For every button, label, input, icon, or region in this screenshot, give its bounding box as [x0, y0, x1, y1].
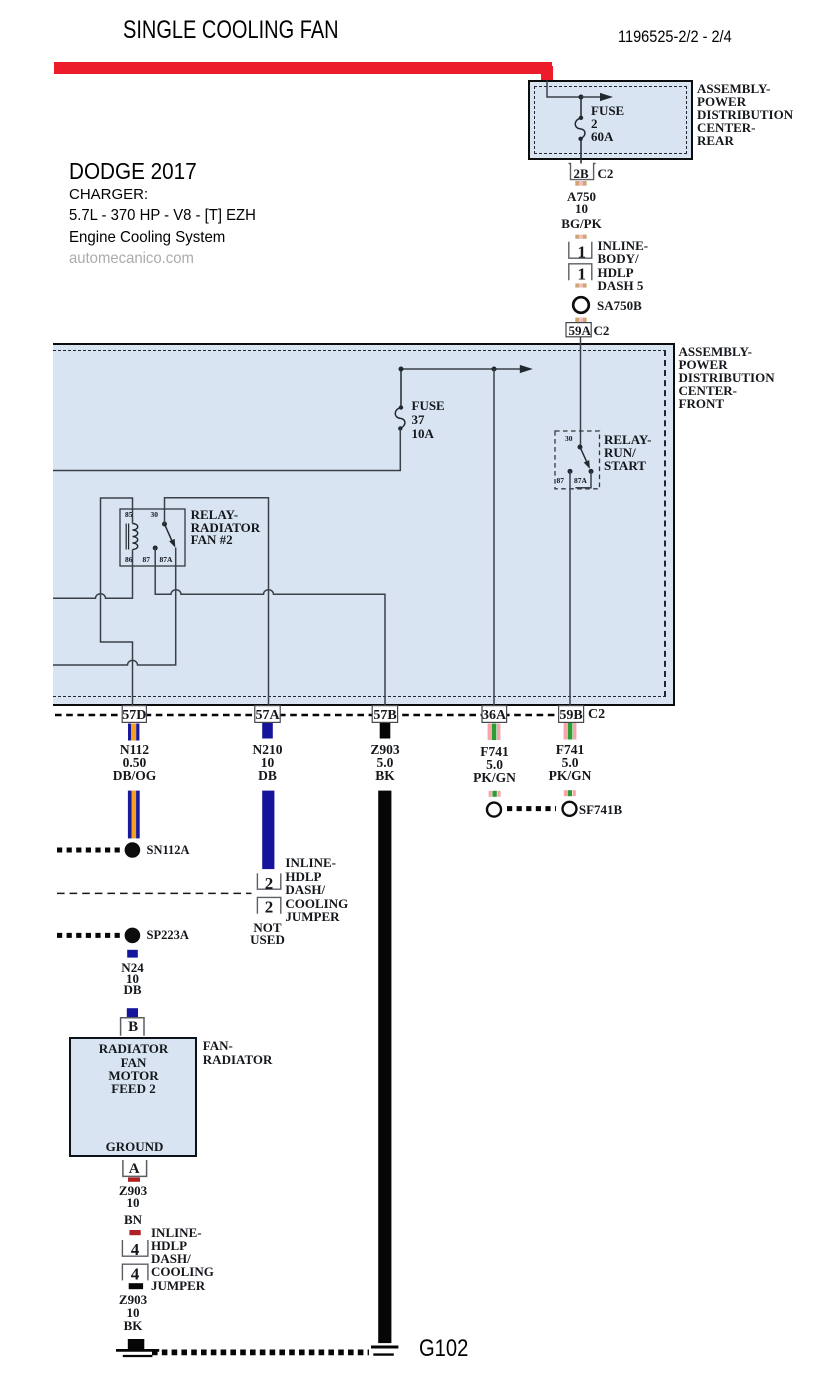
wire bus arrow (front PDC) [401, 368, 522, 370]
wire from red bus to junction (rear PDC) [547, 81, 581, 98]
pin 87A label run/start [574, 477, 587, 485]
inline connector 4 labels [151, 1226, 214, 1291]
sheet number 1196525-2/2 - 2/4 [618, 27, 732, 47]
connector 59A box [566, 323, 591, 337]
connector 57B label [373, 709, 396, 723]
wire stub F741 PK/GN (59B) [564, 723, 577, 740]
red power bus [54, 62, 552, 74]
splice dotted link SF741B [507, 806, 556, 811]
box radiator fan motor [69, 1037, 197, 1157]
node relay fan2 pin 30 [162, 522, 167, 527]
wire Z903 BK label [119, 1293, 147, 1306]
node junction at fuse 37 [399, 367, 404, 372]
connector C2 label (top) [598, 167, 614, 180]
connector A bracket [123, 1160, 147, 1176]
connector 59B label [559, 709, 582, 723]
wire A750 label [567, 190, 596, 203]
connector 57A box [255, 706, 280, 723]
wire pin 30 fan2 up and over to 57A [165, 498, 269, 714]
ground dotted link [152, 1350, 369, 1356]
wire stub DB above connector B [127, 1008, 138, 1018]
relay run/start switch blade to 87A [580, 447, 588, 464]
label relay radiator fan #2 [191, 509, 261, 548]
note NOT USED [250, 922, 285, 947]
connector B label [128, 1020, 138, 1035]
wire stub N210 DB [262, 723, 273, 739]
wire pin 87 fan2 to 57B with hops [155, 548, 385, 714]
label ground (in motor box) [106, 1140, 164, 1153]
pin 87 label fan relay [143, 556, 151, 564]
node junction rear PDC [579, 95, 584, 100]
splice SF741B label [579, 803, 622, 816]
inline connector 2 bracket (lower) [257, 897, 280, 913]
wire stub BG/PK (below splice) [575, 318, 586, 323]
wire arrow feed (rear PDC) [581, 96, 602, 98]
wire fuse 37 output to left box edge [53, 429, 400, 471]
inline connector 2 labels [285, 856, 348, 923]
title SINGLE COOLING FAN [123, 16, 339, 45]
connector A label [129, 1162, 140, 1177]
inline connector 2 bracket (upper) [257, 873, 280, 889]
wire stub F741 PK/GN (36A) [488, 724, 501, 741]
splice SN112A label [147, 844, 190, 857]
connector 57D label [122, 709, 146, 723]
inline connector 1 bracket (lower) [569, 264, 592, 280]
splice dotted lead (SN112A) [57, 848, 121, 853]
connector 36A box [482, 706, 507, 723]
inline connector 1 labels [598, 239, 649, 292]
svg-text:2: 2 [265, 898, 274, 917]
pin 87A label fan relay [160, 556, 173, 564]
splice eyelet SF741B [563, 802, 577, 816]
node relay run/start pin 30 [578, 445, 583, 450]
wire stub to ground (left) [128, 1339, 145, 1349]
splice SA750B label [597, 299, 642, 312]
wire stub F741 short (36A) [489, 791, 501, 797]
connector row dashed line [55, 714, 559, 716]
wire F741 label (36A) [473, 746, 516, 785]
inline connector 4 bracket (lower) [122, 1264, 147, 1280]
wire N210 DB run [262, 791, 274, 870]
wire N112 DB/OG run [128, 791, 140, 839]
wire 59A into front PDC down to relay pin 30 [580, 337, 582, 447]
connector C2 label (bottom) [588, 708, 605, 722]
box assembly power distribution center rear [528, 80, 693, 160]
wire stub Z903 BK [380, 723, 391, 739]
inline connector 1 bracket (upper) [569, 242, 592, 258]
wire stub N112 DB/OG [128, 724, 139, 741]
ground symbol (left) [116, 1349, 159, 1352]
wire stub BG/PK (above splice) [575, 283, 586, 287]
dashed inner border rear PDC [534, 86, 687, 154]
wire pin 85: coil top up, over and down to 57D [101, 498, 133, 714]
splice SP223A label [147, 929, 189, 942]
ground symbol G102 (right) [371, 1346, 398, 1349]
splice dotted lead (SP223A) [57, 933, 121, 938]
connector C2 label (59A) [594, 324, 610, 337]
splice eyelet (36A side) [487, 803, 501, 817]
wire 36A branch down to connector [493, 369, 495, 714]
splice SP223A [125, 928, 141, 944]
pin 87 label run/start [557, 477, 565, 485]
connector B bracket [121, 1018, 144, 1036]
svg-text:1: 1 [578, 265, 587, 284]
wire stub N24 DB [127, 950, 138, 958]
inline connector 4 bracket (upper) [122, 1240, 147, 1256]
wire 59B: run/start pin 87 down to connector [569, 471, 571, 714]
red power bus drop [541, 66, 553, 81]
wire N210 label [253, 744, 283, 783]
relay coil core lines [126, 524, 128, 550]
connector 57B box [372, 706, 397, 723]
label fan-radiator [203, 1039, 273, 1066]
ground G102 label [419, 1335, 468, 1363]
node junction at 36A branch [492, 367, 497, 372]
wire stub Z903 BK (below inline 4) [129, 1283, 143, 1289]
svg-text:4: 4 [131, 1264, 140, 1283]
pin 86 label fan relay [125, 556, 133, 564]
relay coil winding [133, 524, 138, 550]
wire N112 label [113, 744, 157, 783]
fuse F37 value label [412, 399, 445, 441]
harness dashed separator [57, 892, 252, 894]
connector 36A label [482, 709, 506, 723]
splice SA750B [573, 297, 589, 313]
connector 2B bracket [569, 164, 596, 180]
wire N24 label [121, 962, 143, 995]
wire Z903 BN label [119, 1184, 147, 1197]
node relay run/start pin 87A [589, 469, 594, 474]
svg-text:1: 1 [578, 242, 587, 261]
wire stub F741 short (59B) [564, 790, 576, 796]
wire Z903 BK run [378, 791, 391, 1344]
fuse F37 10A [395, 369, 405, 428]
relay radiator fan #2 box [120, 509, 185, 566]
label relay run/start [604, 433, 651, 473]
wire stub Z903 BN (above inline 4) [129, 1230, 140, 1235]
fuse F2 value label [591, 104, 624, 143]
label rear PDC [697, 82, 793, 147]
svg-text:2: 2 [265, 874, 274, 893]
node relay fan2 pin 87 [153, 546, 158, 551]
connector 57D box [122, 706, 146, 723]
connector 57A label [255, 709, 279, 723]
connector 59B box [559, 706, 584, 723]
info block DODGE 2017 [69, 158, 197, 185]
node relay run/start pin 87 [568, 469, 573, 474]
label radiator fan motor feed 2 [99, 1042, 169, 1095]
connector 2B label [574, 167, 589, 180]
wire pin 87A fan2 down and left to box edge with hop [53, 548, 176, 665]
connector 59A label [569, 324, 591, 337]
pin 30 label fan relay [151, 511, 159, 519]
wire F741 label (59B) [549, 744, 592, 783]
wire stub Z903 BN (below A) [128, 1177, 140, 1181]
relay fan2 switch blade to 87A [165, 524, 173, 542]
pin 85 label fan relay [125, 511, 133, 519]
splice SN112A [125, 842, 141, 858]
box assembly power distribution center front (fill) [53, 343, 675, 706]
dashed inner border front PDC [53, 350, 666, 698]
fuse F2 60A [575, 97, 585, 164]
relay run/start dashed box [555, 431, 600, 489]
pin 30 label run/start [565, 435, 573, 443]
wire stub BG/PK (above A750) [575, 181, 586, 186]
label front PDC box [679, 345, 775, 410]
svg-text:4: 4 [131, 1240, 140, 1259]
wire Z903 label [370, 744, 399, 783]
wire pin 87A stub run/start [575, 471, 591, 487]
wire stub BG/PK (below BG/PK text) [575, 235, 586, 239]
wire pin 86 (coil bottom) left to box edge with hop [53, 550, 133, 599]
